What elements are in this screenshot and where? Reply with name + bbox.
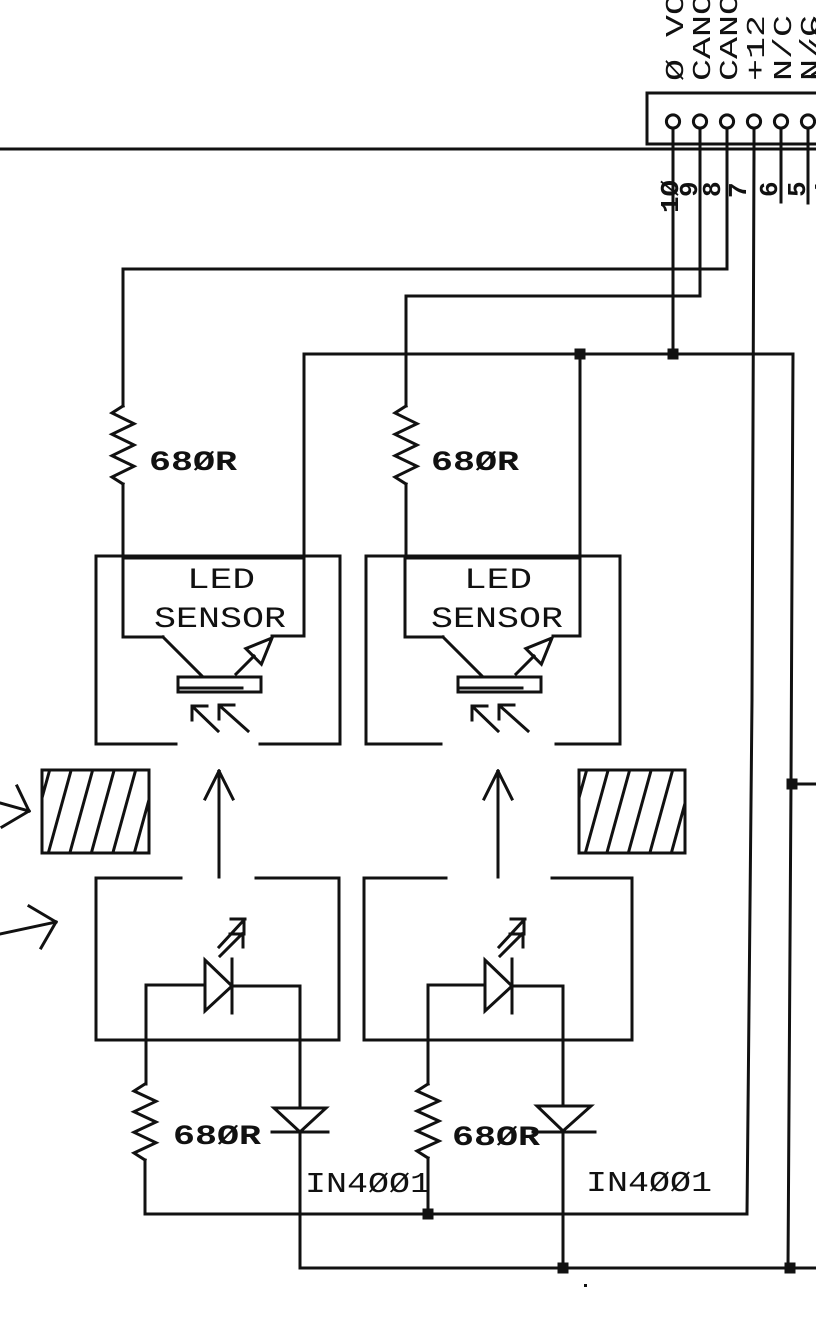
- light arrow into Q2 (b): [499, 705, 528, 731]
- LED module 2 outer box: [364, 878, 632, 1040]
- svg-text:IN4ØØ1: IN4ØØ1: [305, 1168, 431, 1201]
- svg-text:N/C: N/C: [769, 15, 799, 81]
- wire: pin 8 to resistor R1 (left, down at x=123): [123, 150, 727, 406]
- light beam arrow LED2 to sensor 2: [484, 771, 512, 877]
- pointer arrow to LED box 1: [0, 906, 56, 948]
- wire: LED2 cathode down to diode D4: [562, 1040, 565, 1106]
- LED module 1 outer box (gap in top for light): [96, 878, 339, 1040]
- connector J1 pin 5 (circle and lead): [801, 115, 814, 158]
- svg-text:68ØR: 68ØR: [149, 448, 237, 479]
- light beam arrow LED1 to sensor 1: [205, 771, 233, 877]
- wire: LED1 cathode down to diode D3: [299, 1040, 302, 1108]
- svg-text:SENSOR: SENSOR: [431, 603, 563, 637]
- wire: pin 9 to resistor R2: [406, 150, 700, 406]
- wire: D3 cathode down to bottom rail: [299, 1132, 302, 1268]
- connector J1 pin 6 (circle and lead): [774, 115, 787, 158]
- svg-text:CANON: CANON: [715, 0, 745, 81]
- svg-text:Ø VOLTS: Ø VOLTS: [661, 0, 691, 81]
- opto sensor module 2 outer box: [366, 556, 620, 744]
- wire: +12 feed rail (R3/R4 bottoms to pin 7): [145, 1213, 747, 1216]
- pointer arrow to slot 1: [0, 786, 29, 827]
- wire: pin 5 N/C stub: [807, 150, 810, 203]
- phototransistor Q1 base bar: [178, 677, 261, 692]
- connector J1 body (10-way, cut off at right edge): [647, 93, 816, 144]
- LED D2 emission arrow (b): [500, 934, 524, 956]
- ink speck: [584, 1284, 587, 1287]
- LED D1 symbol (triangle and cathode bar): [205, 959, 232, 1013]
- wire: pin 7 (+12) down to bottom rail: [747, 150, 754, 1214]
- svg-text:68ØR: 68ØR: [431, 448, 519, 479]
- wire: R3 bottom to +12 rail: [144, 1160, 147, 1214]
- junction R4 on +12 rail: [423, 1209, 434, 1220]
- resistor R2 680R (zigzag): [395, 406, 417, 484]
- wire: long horizontal net across page top: [0, 148, 816, 151]
- svg-text:IN4ØØ1: IN4ØØ1: [586, 1167, 712, 1200]
- svg-text:SENSOR: SENSOR: [154, 603, 286, 637]
- hatched slot / vane 2 (right): [563, 767, 695, 856]
- junction right bus on bottom rail: [785, 1263, 796, 1274]
- connector J1 pin 10 (circle and lead): [666, 115, 679, 158]
- resistor R3 680R (zigzag): [134, 1084, 156, 1160]
- svg-text:CANON: CANON: [688, 0, 718, 81]
- svg-text:68ØR: 68ØR: [452, 1123, 540, 1154]
- connector J1 pin 8 (circle and lead): [720, 115, 733, 158]
- svg-text:N/C: N/C: [806, 15, 816, 81]
- opto sensor module 1 outer box (gap in bottom for light): [96, 556, 340, 744]
- resistor R4 680R (zigzag): [417, 1084, 439, 1158]
- phototransistor Q2 package outline (inner box with funnel): [405, 556, 580, 676]
- LED D1 connection loop (inner box): [146, 985, 300, 1040]
- wire: pin 10 down to sensor net: [672, 150, 675, 354]
- svg-text:LED: LED: [187, 564, 255, 598]
- wire: D4 cathode down to bottom rail: [562, 1132, 565, 1268]
- svg-text:68ØR: 68ØR: [173, 1122, 261, 1153]
- wire: pin 6 N/C stub: [780, 150, 783, 202]
- light arrow into Q1 (a): [192, 706, 218, 731]
- junction at pin10 / sensor net: [668, 349, 679, 360]
- phototransistor Q2 base bar: [458, 677, 541, 692]
- wire: R2 bottom into sensor box 2: [405, 484, 408, 556]
- wire: R4 bottom to +12 rail: [427, 1158, 430, 1214]
- LED D1 emission arrow (a): [219, 919, 245, 947]
- hatched slot / vane 1 (left): [26, 767, 158, 856]
- svg-text:LED: LED: [464, 564, 532, 598]
- diode D3 IN4001 (triangle and bar): [272, 1108, 328, 1132]
- wire: R1 bottom into sensor box 1: [122, 484, 125, 556]
- wire: bottom cathode rail to right edge: [300, 1267, 816, 1270]
- light arrow into Q2 (a): [472, 706, 498, 731]
- light arrow into Q1 (b): [219, 705, 248, 731]
- connector J1 pin 9 (circle and lead): [693, 115, 706, 158]
- phototransistor Q2 emitter arrow: [516, 638, 552, 674]
- diode D4 IN4001 (triangle and bar): [533, 1106, 595, 1132]
- resistor R1 680R (zigzag): [112, 406, 134, 484]
- wire: sensor emitter net (Q1 emitter up, across, down right-side bus): [304, 354, 793, 1268]
- phototransistor Q1 package outline (inner box with funnel): [123, 556, 304, 676]
- junction D4 on bottom rail: [558, 1263, 569, 1274]
- wire: LED1 anode to R3: [145, 1040, 148, 1084]
- wire: LED2 anode to R4: [427, 1040, 430, 1084]
- LED D2 emission arrow (a): [499, 919, 525, 947]
- LED D2 symbol (triangle and cathode bar): [485, 959, 512, 1013]
- wire: net branch to Q2 emitter: [579, 354, 582, 636]
- phototransistor Q1 emitter arrow: [236, 638, 272, 674]
- LED D2 connection loop (inner box): [428, 985, 563, 1040]
- junction on right bus with stub to page edge: [787, 779, 816, 790]
- junction at Q2 emitter branch: [575, 349, 586, 360]
- LED D1 emission arrow (b): [220, 934, 244, 956]
- svg-text:+12: +12: [742, 15, 772, 81]
- svg-text:4: 4: [810, 181, 816, 197]
- connector J1 pin 7 (circle and lead): [747, 115, 760, 158]
